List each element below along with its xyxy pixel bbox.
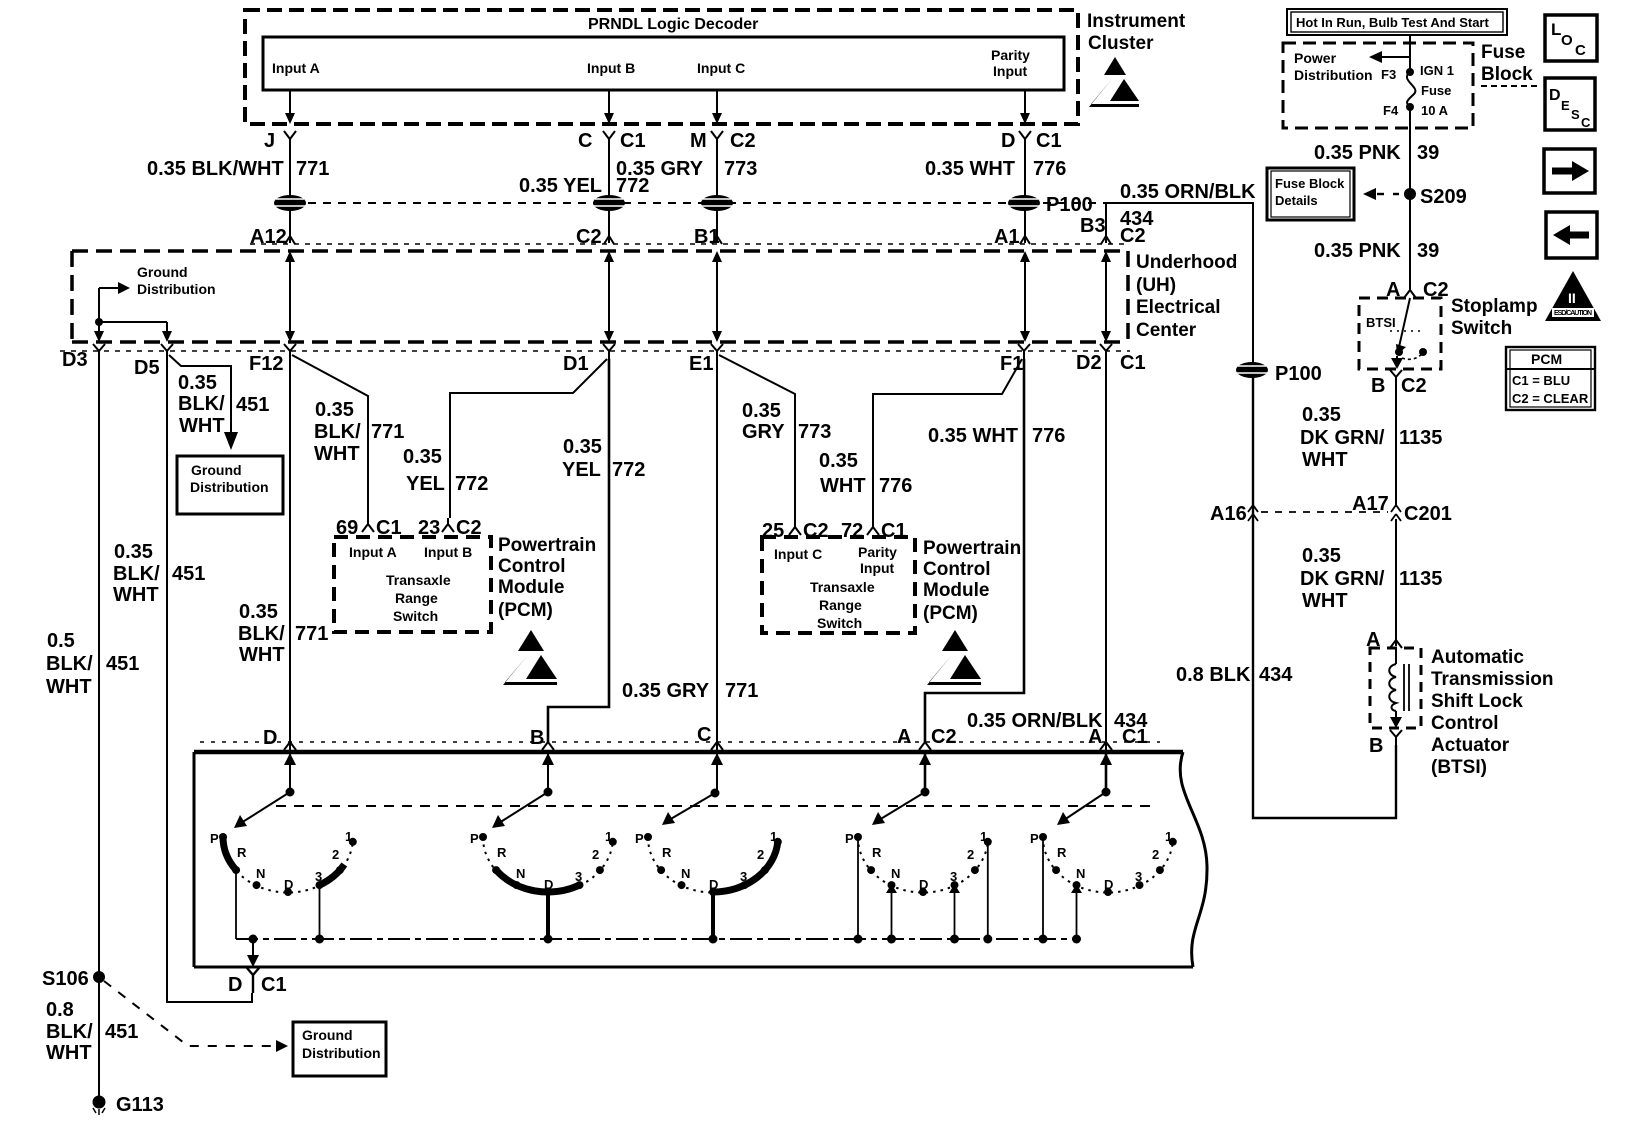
wire 772 D1 down to switch B — [548, 359, 609, 742]
ground G113 — [93, 1094, 164, 1116]
svg-text:Actuator: Actuator — [1431, 735, 1510, 756]
dashed reference wire S106 to ground distribution — [104, 981, 276, 1046]
svg-text:WHT: WHT — [113, 584, 159, 606]
svg-text:1: 1 — [605, 829, 612, 844]
wire B1-E1 inside UH — [712, 251, 722, 342]
svg-text:N: N — [891, 866, 900, 881]
legend back arrow box — [1546, 212, 1597, 258]
svg-text:D: D — [544, 877, 553, 892]
wire C2-D1 inside UH — [604, 251, 614, 342]
ground distribution box mid — [177, 456, 283, 514]
svg-text:3: 3 — [575, 869, 582, 884]
pin A BTSI actuator — [1366, 629, 1402, 651]
svg-text:N: N — [256, 866, 265, 881]
svg-text:D: D — [284, 877, 293, 892]
svg-text:Control: Control — [1431, 713, 1499, 734]
svg-text:0.35 YEL: 0.35 YEL — [519, 175, 602, 197]
svg-text:0.35 WHT: 0.35 WHT — [925, 158, 1015, 180]
dashed wiper common line inside box — [276, 805, 1154, 807]
wire segment parity to P100 — [1024, 147, 1026, 243]
pin D2 C1 — [1076, 344, 1146, 374]
svg-text:C1: C1 — [1036, 130, 1062, 152]
svg-text:B: B — [1371, 375, 1385, 397]
svg-text:C1: C1 — [1122, 726, 1148, 748]
wire A12-F12 inside UH — [285, 251, 295, 342]
Hot In Run Bulb Test And Start box — [1287, 9, 1507, 35]
svg-text:Underhood: Underhood — [1136, 252, 1237, 273]
svg-text:C: C — [578, 130, 592, 152]
pin B1 — [694, 226, 722, 248]
pin 25 C2 — [762, 520, 829, 542]
pin 72 C1 — [841, 520, 907, 542]
transaxle range switch PCM box 1 — [334, 537, 491, 632]
svg-text:Transaxle: Transaxle — [810, 579, 875, 595]
svg-text:D1: D1 — [563, 353, 589, 375]
svg-text:0.35: 0.35 — [239, 601, 278, 623]
switch 1 entry wire — [284, 752, 296, 797]
ESD symbol PCM right — [927, 630, 981, 685]
P100 crimp on wire 773 — [701, 195, 733, 211]
power feed arrow from wire — [1369, 51, 1410, 63]
svg-text:0.5: 0.5 — [47, 630, 75, 652]
svg-text:Parity: Parity — [858, 544, 897, 560]
wire 434 ORN/BLK top corner — [1106, 203, 1253, 370]
wire bus to pin D C1 — [247, 939, 259, 967]
svg-text:Center: Center — [1136, 320, 1197, 341]
svg-text:(PCM): (PCM) — [923, 603, 978, 624]
svg-text:R: R — [497, 845, 507, 860]
svg-text:C2: C2 — [730, 130, 756, 152]
svg-text:C1 = BLU: C1 = BLU — [1512, 373, 1570, 388]
pin F1 — [1000, 344, 1030, 375]
wire Parity Input drop — [1024, 90, 1026, 116]
svg-text:Input C: Input C — [697, 60, 745, 76]
svg-text:C201: C201 — [1404, 503, 1452, 525]
svg-text:C1: C1 — [261, 974, 287, 996]
svg-text:3: 3 — [740, 869, 747, 884]
svg-text:Module: Module — [498, 577, 565, 598]
svg-text:C2: C2 — [931, 726, 957, 748]
svg-text:776: 776 — [879, 475, 912, 497]
P100 crimp on wire 772 — [593, 195, 625, 211]
svg-text:776: 776 — [1032, 425, 1065, 447]
P100 pass-through dashed line — [278, 202, 1111, 204]
svg-text:451: 451 — [105, 1021, 138, 1043]
svg-text:(PCM): (PCM) — [498, 600, 553, 621]
pin D1 — [563, 344, 615, 375]
svg-text:Transmission: Transmission — [1431, 669, 1554, 690]
svg-text:C: C — [1575, 42, 1586, 59]
connector line above range switch box — [200, 741, 1160, 743]
svg-text:A17: A17 — [1352, 493, 1389, 515]
svg-text:A1: A1 — [994, 226, 1020, 248]
pin D into switch box — [263, 727, 296, 750]
svg-text:39: 39 — [1417, 240, 1439, 262]
switch 2 contact drop from D — [546, 892, 550, 939]
svg-text:Hot In Run, Bulb Test And Star: Hot In Run, Bulb Test And Start — [1296, 15, 1489, 30]
svg-text:771: 771 — [295, 623, 328, 645]
pin D5 — [134, 344, 173, 379]
svg-text:R: R — [237, 845, 247, 860]
svg-text:2: 2 — [1152, 847, 1159, 862]
wire Input C drop — [716, 90, 718, 116]
wire 771 branch F12 to PCM input A — [292, 355, 368, 518]
svg-text:Automatic: Automatic — [1431, 647, 1524, 668]
svg-text:451: 451 — [236, 394, 269, 416]
svg-text:772: 772 — [455, 473, 488, 495]
svg-text:F12: F12 — [249, 353, 283, 375]
ground distribution box bottom — [293, 1022, 386, 1076]
svg-text:R: R — [872, 845, 882, 860]
svg-text:Fuse: Fuse — [1481, 42, 1525, 63]
svg-text:S: S — [1571, 107, 1580, 122]
svg-text:0.35: 0.35 — [1302, 404, 1341, 426]
svg-text:773: 773 — [724, 158, 757, 180]
BTSI actuator dashed box — [1370, 648, 1421, 728]
svg-text:WHT: WHT — [46, 676, 92, 698]
svg-text:E1: E1 — [689, 353, 713, 375]
svg-text:Input C: Input C — [774, 546, 822, 562]
svg-text:Switch: Switch — [817, 615, 862, 631]
svg-text:Distribution: Distribution — [190, 479, 269, 495]
switch 2 rotary contacts — [470, 829, 617, 896]
svg-text:Input A: Input A — [272, 60, 320, 76]
legend LOC box — [1545, 15, 1597, 61]
svg-text:O: O — [1561, 32, 1573, 49]
svg-text:2: 2 — [757, 847, 764, 862]
svg-text:0.35: 0.35 — [1302, 545, 1341, 567]
svg-text:0.35: 0.35 — [403, 446, 442, 468]
pin A12 — [250, 226, 295, 248]
svg-text:Power: Power — [1294, 50, 1337, 66]
switch 2 wiper arrow — [492, 792, 548, 828]
svg-text:WHT: WHT — [1302, 590, 1348, 612]
svg-text:Stoplamp: Stoplamp — [1451, 296, 1538, 317]
wire Input B drop — [608, 90, 610, 116]
switch 4 entry wire — [919, 752, 931, 797]
svg-text:D5: D5 — [134, 357, 160, 379]
svg-text:BLK/: BLK/ — [314, 421, 361, 443]
svg-text:Transaxle: Transaxle — [386, 572, 451, 588]
svg-text:ESD/CAUTION: ESD/CAUTION — [1554, 310, 1592, 317]
wire 776 F1 down to switch A C2 — [925, 359, 1024, 742]
svg-text:C2: C2 — [576, 226, 602, 248]
svg-text:0.35 WHT: 0.35 WHT — [928, 425, 1018, 447]
svg-text:0.8 BLK: 0.8 BLK — [1176, 664, 1251, 686]
wire IGN feed top — [1409, 35, 1411, 72]
switch 3 contact drop from D — [711, 892, 715, 939]
pin F12 — [249, 344, 296, 375]
svg-text:Ground: Ground — [137, 264, 188, 280]
svg-text:Control: Control — [498, 556, 566, 577]
wire 773 E1 down to switch C — [716, 359, 718, 752]
svg-text:PCM: PCM — [1531, 351, 1562, 367]
pin D C1 below switch box — [228, 968, 287, 996]
switch 4 wiper arrow — [872, 792, 925, 825]
svg-text:Instrument: Instrument — [1087, 11, 1186, 32]
wire segment C2 to P100 — [716, 147, 718, 243]
switch 2 entry wire — [542, 752, 554, 797]
svg-text:0.35 ORN/BLK: 0.35 ORN/BLK — [1120, 181, 1256, 203]
svg-text:D: D — [919, 877, 928, 892]
svg-text:B3: B3 — [1080, 215, 1106, 237]
svg-text:776: 776 — [1033, 158, 1066, 180]
wire S106 to G113 — [98, 977, 100, 1102]
svg-text:P100: P100 — [1275, 363, 1322, 385]
svg-text:BLK/: BLK/ — [46, 653, 93, 675]
svg-text:R: R — [662, 845, 672, 860]
svg-text:434: 434 — [1259, 664, 1293, 686]
wire 451 from D3 to S106 — [98, 359, 100, 972]
svg-text:A: A — [897, 726, 911, 748]
svg-text:GRY: GRY — [742, 421, 785, 443]
svg-text:10 A: 10 A — [1421, 103, 1449, 118]
switch 5 entry wire — [1100, 752, 1112, 797]
svg-text:1135: 1135 — [1399, 427, 1442, 449]
svg-text:A: A — [1088, 726, 1102, 748]
svg-text:0.35: 0.35 — [742, 400, 781, 422]
svg-text:P: P — [470, 831, 479, 846]
bus junction dots — [249, 935, 258, 944]
svg-text:N: N — [516, 866, 525, 881]
svg-text:Fuse: Fuse — [1421, 83, 1451, 98]
PRNDL Logic Decoder inner box U1 — [263, 37, 1064, 90]
pin J connector — [264, 130, 296, 152]
svg-text:P: P — [845, 831, 854, 846]
svg-text:Cluster: Cluster — [1088, 33, 1154, 54]
svg-text:PRNDL Logic Decoder: PRNDL Logic Decoder — [588, 16, 758, 33]
svg-text:P: P — [1030, 831, 1039, 846]
PCM connector legend box — [1506, 347, 1595, 410]
svg-text:0.35 PNK: 0.35 PNK — [1314, 142, 1401, 164]
svg-text:D: D — [1549, 87, 1561, 104]
svg-text:N: N — [1076, 866, 1085, 881]
svg-text:D: D — [263, 727, 277, 749]
svg-text:Input B: Input B — [587, 60, 635, 76]
ground distribution branch wire — [99, 287, 118, 289]
svg-text:C1: C1 — [620, 130, 646, 152]
pin C into switch box — [697, 724, 723, 750]
svg-text:772: 772 — [612, 459, 645, 481]
svg-text:BLK/: BLK/ — [113, 563, 160, 585]
svg-text:Distribution: Distribution — [1294, 67, 1373, 83]
svg-text:0.35: 0.35 — [178, 372, 217, 394]
P100 crimp on wire 776 — [1008, 195, 1040, 211]
svg-text:0.35: 0.35 — [315, 399, 354, 421]
svg-text:1: 1 — [770, 829, 777, 844]
svg-text:Fuse Block: Fuse Block — [1275, 176, 1345, 191]
wire segment J to P100 — [289, 139, 291, 243]
svg-text:Range: Range — [395, 590, 438, 606]
wire Input A drop — [289, 90, 291, 116]
svg-text:Powertrain: Powertrain — [498, 535, 596, 556]
svg-text:YEL: YEL — [562, 459, 601, 481]
svg-text:D3: D3 — [62, 349, 88, 371]
svg-text:II: II — [1568, 290, 1576, 306]
svg-text:BTSI: BTSI — [1366, 315, 1396, 330]
svg-text:WHT: WHT — [820, 475, 866, 497]
wire 39 fuse to S209 — [1409, 107, 1411, 194]
connector C201 inline — [1210, 493, 1452, 525]
svg-text:Range: Range — [819, 597, 862, 613]
svg-text:771: 771 — [725, 680, 758, 702]
switch 4 contact drops — [858, 838, 988, 939]
svg-text:Parity: Parity — [991, 47, 1030, 63]
pin D3 — [62, 344, 105, 371]
svg-text:F3: F3 — [1381, 67, 1396, 82]
svg-text:1: 1 — [345, 829, 352, 844]
label Fuse Block — [1481, 42, 1537, 86]
svg-text:3: 3 — [315, 869, 322, 884]
wire A1-F1 inside UH — [1020, 251, 1030, 342]
svg-text:BLK/: BLK/ — [46, 1021, 93, 1043]
svg-text:R: R — [1057, 845, 1067, 860]
connector line D3 row — [60, 350, 1130, 352]
svg-text:Distribution: Distribution — [302, 1045, 381, 1061]
switch 1 rotary contacts — [210, 829, 357, 896]
svg-text:2: 2 — [592, 847, 599, 862]
wire 772 branch D1 to PCM input B — [450, 359, 607, 518]
legend forward arrow box — [1544, 149, 1595, 193]
P100 crimp on wire 434 — [1236, 362, 1322, 385]
wire 434 return loop — [1253, 370, 1396, 818]
wire 771 F12 to switch D — [289, 359, 291, 752]
wavy torn right edge — [1180, 752, 1207, 967]
fuse block details box — [1267, 168, 1354, 220]
svg-text:Input: Input — [860, 560, 895, 576]
ESD symbol PCM left — [503, 630, 557, 685]
svg-text:0.35 PNK: 0.35 PNK — [1314, 240, 1401, 262]
ESD warning triangle legend — [1545, 271, 1601, 321]
svg-text:C: C — [697, 724, 711, 746]
svg-text:P: P — [635, 831, 644, 846]
svg-text:YEL: YEL — [406, 473, 445, 495]
pin 69 C1 — [336, 517, 402, 539]
pin B into switch box — [530, 727, 554, 750]
svg-text:434: 434 — [1120, 208, 1154, 230]
svg-text:2: 2 — [332, 847, 339, 862]
stoplamp switch BTSI dashed box — [1359, 298, 1441, 369]
svg-text:L: L — [1551, 20, 1561, 39]
switch 4 rotary contacts — [845, 829, 992, 896]
wire 773 branch E1 to PCM input C — [719, 355, 795, 521]
svg-text:E: E — [1561, 98, 1570, 113]
solenoid coil L1 BTSI — [1389, 648, 1409, 728]
svg-text:S106: S106 — [42, 968, 89, 990]
svg-text:771: 771 — [371, 421, 404, 443]
svg-text:Ground: Ground — [191, 462, 242, 478]
svg-text:D2: D2 — [1076, 352, 1102, 374]
svg-text:D: D — [228, 974, 242, 996]
wire B3-D2 inside UH — [1101, 251, 1111, 342]
pin A C2 into switch box — [897, 726, 957, 750]
svg-text:M: M — [690, 130, 707, 152]
svg-text:J: J — [264, 130, 275, 152]
svg-text:39: 39 — [1417, 142, 1439, 164]
transaxle range switch assembly box — [194, 750, 1183, 755]
svg-text:3: 3 — [950, 869, 957, 884]
svg-text:Control: Control — [923, 559, 991, 580]
stoplamp switch contact — [1390, 298, 1427, 369]
switch 5 wiper arrow — [1057, 792, 1106, 825]
svg-text:Input: Input — [993, 63, 1028, 79]
switch 5 rotary contacts — [1030, 829, 1177, 896]
wire 39 S209 to stoplamp switch — [1409, 194, 1411, 290]
svg-text:C2 = CLEAR: C2 = CLEAR — [1512, 391, 1589, 406]
svg-text:Switch: Switch — [1451, 318, 1512, 339]
svg-text:WHT: WHT — [239, 644, 285, 666]
svg-text:C2: C2 — [1401, 375, 1427, 397]
svg-text:Details: Details — [1275, 193, 1318, 208]
svg-text:D: D — [709, 877, 718, 892]
pin C2 — [576, 226, 614, 248]
svg-text:Input B: Input B — [424, 544, 472, 560]
svg-text:P100: P100 — [1046, 194, 1093, 216]
common bus wire inside switch box — [236, 938, 1077, 940]
pin E1 — [689, 344, 723, 375]
svg-text:0.8: 0.8 — [46, 999, 74, 1021]
P100 crimp on wire 771 — [274, 195, 306, 211]
svg-text:1135: 1135 — [1399, 568, 1442, 590]
pin D C1 connector — [1001, 130, 1062, 152]
pin A1 — [994, 226, 1030, 248]
svg-text:Input A: Input A — [349, 544, 397, 560]
fuse F3 IGN 1 Fuse 10A — [1381, 63, 1454, 118]
svg-text:(UH): (UH) — [1136, 275, 1176, 296]
svg-text:0.35 GRY: 0.35 GRY — [616, 158, 704, 180]
switch 1 wiper arrow — [234, 792, 290, 828]
svg-text:2: 2 — [967, 847, 974, 862]
wire segment C1 to P100 — [608, 147, 610, 243]
svg-text:D: D — [1104, 877, 1113, 892]
wire D5 drop inside UH — [166, 322, 168, 333]
wire 1135 stoplamp to C201 — [1395, 385, 1397, 507]
svg-text:(BTSI): (BTSI) — [1431, 757, 1487, 778]
svg-text:N: N — [681, 866, 690, 881]
connector line A12 row — [250, 243, 1128, 245]
svg-text:Block: Block — [1481, 64, 1533, 85]
svg-text:451: 451 — [106, 653, 139, 675]
splice S209 — [1404, 186, 1467, 208]
svg-text:F4: F4 — [1383, 103, 1399, 118]
switch 5 contact drops — [1043, 838, 1082, 939]
pin B C2 stoplamp — [1371, 370, 1427, 397]
switch 3 entry wire — [711, 752, 724, 798]
svg-text:0.35: 0.35 — [819, 450, 858, 472]
ESD symbol instrument cluster — [1089, 57, 1139, 107]
switch 3 wiper arrow — [662, 793, 715, 825]
reference arrow to fuse block details — [1363, 188, 1399, 200]
svg-text:Electrical: Electrical — [1136, 297, 1221, 318]
svg-text:DK GRN/: DK GRN/ — [1300, 427, 1385, 449]
svg-text:451: 451 — [172, 563, 205, 585]
instrument cluster dashed box — [245, 10, 1078, 124]
svg-text:0.35 ORN/BLK: 0.35 ORN/BLK — [967, 710, 1103, 732]
svg-text:BLK/: BLK/ — [238, 623, 285, 645]
pin A C2 stoplamp — [1386, 279, 1449, 301]
svg-text:C1: C1 — [1120, 352, 1146, 374]
svg-text:771: 771 — [296, 158, 329, 180]
pin A C1 into switch box — [1088, 726, 1148, 750]
svg-text:IGN 1: IGN 1 — [1420, 63, 1454, 78]
svg-text:Shift Lock: Shift Lock — [1431, 691, 1523, 712]
pin B3 C2 — [1080, 215, 1146, 247]
svg-text:WHT: WHT — [179, 415, 225, 437]
svg-text:0.35: 0.35 — [114, 541, 153, 563]
wire 434 D2 down to switch A C1 — [1105, 359, 1107, 752]
svg-text:Switch: Switch — [393, 608, 438, 624]
svg-text:A16: A16 — [1210, 503, 1247, 525]
